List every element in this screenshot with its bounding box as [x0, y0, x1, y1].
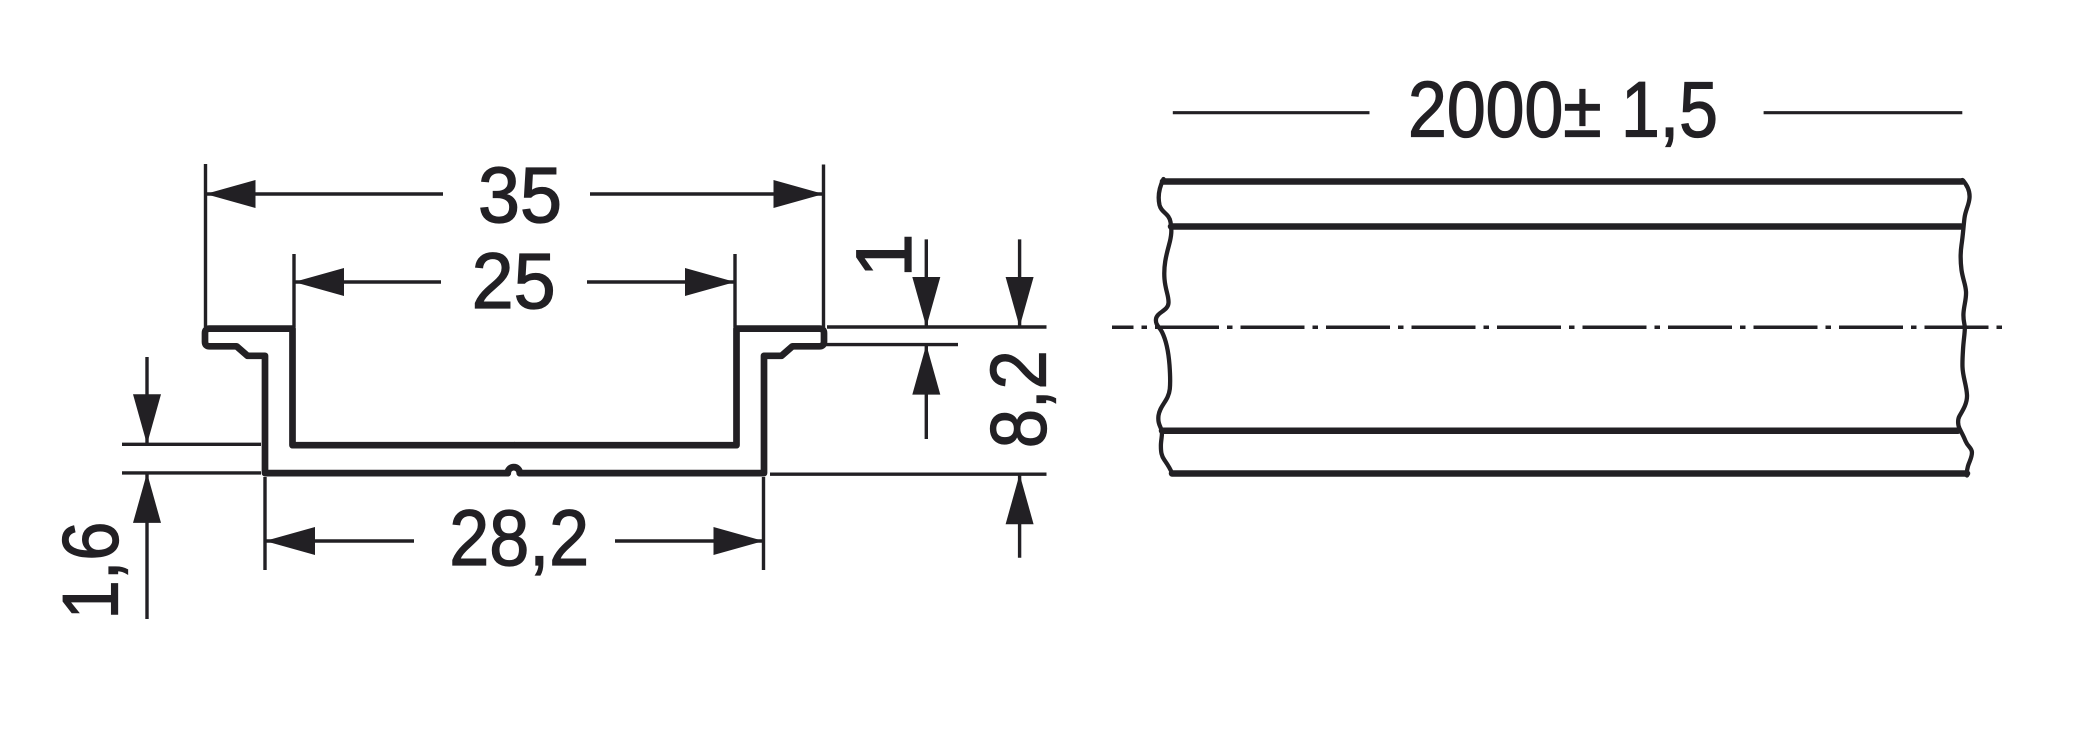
svg-text:8,2: 8,2: [974, 350, 1063, 448]
svg-text:2000± 1,5: 2000± 1,5: [1408, 65, 1718, 154]
svg-text:1: 1: [839, 234, 928, 278]
svg-text:28,2: 28,2: [449, 493, 589, 582]
svg-text:35: 35: [478, 150, 562, 239]
svg-text:25: 25: [472, 236, 556, 325]
svg-text:1,6: 1,6: [46, 522, 135, 620]
